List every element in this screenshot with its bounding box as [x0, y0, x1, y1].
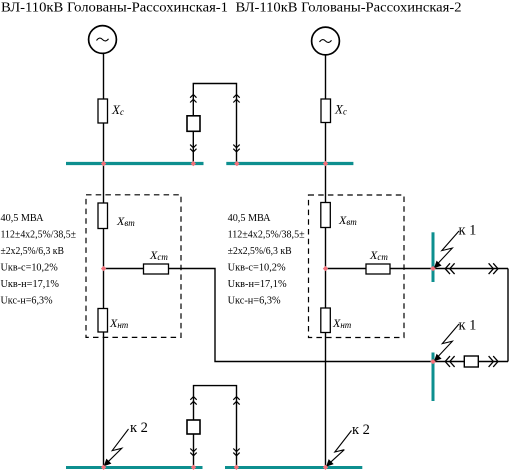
svg-text:Xc: Xc	[111, 102, 124, 117]
node: T2 LV feeder on bottom bus 2	[323, 465, 328, 470]
withdrawable contact arrows down, tie left (top)	[190, 145, 196, 152]
svg-text:к 2: к 2	[352, 422, 370, 438]
winding reactance Xvt (T1 HV)	[98, 203, 108, 229]
fault arrow K2 right	[326, 431, 352, 467]
node: tie left leg on bottom bus 1	[191, 465, 196, 470]
node: 35kV bus stub upper junction	[430, 266, 435, 271]
winding reactance Xst (T2 MV)	[366, 264, 390, 274]
busbar LV section 1 (bottom)	[66, 466, 203, 469]
svg-text:Uкв-н=17,1%: Uкв-н=17,1%	[1, 279, 60, 290]
svg-text:Uкв-с=10,2%: Uкв-с=10,2%	[1, 262, 59, 273]
reactor Xc2	[321, 99, 331, 123]
bus-tie jumper (bottom)	[194, 386, 237, 466]
svg-text:±2х2,5%/6,3 кВ: ±2х2,5%/6,3 кВ	[1, 246, 65, 257]
generator G1 (system source line 1)	[89, 26, 117, 54]
breaker box, bus-tie left (top)	[187, 116, 200, 132]
plug contacts << on upper line	[445, 263, 454, 274]
svg-text:ВЛ-110кВ Голованы-Рассохинская: ВЛ-110кВ Голованы-Рассохинская-2	[236, 1, 462, 16]
busbar LV section 2 (bottom)	[225, 466, 362, 469]
T2 nameplate text block	[228, 213, 305, 306]
svg-text:к 2: к 2	[130, 420, 148, 436]
node: G2 feeder on 110kV bus 2	[323, 161, 328, 166]
wire Xc1 to busbar A1	[103, 123, 105, 165]
winding reactance Xst (T1 MV)	[144, 264, 169, 274]
svg-text:к 1: к 1	[459, 223, 477, 239]
node: tie right leg on 110kV bus 2	[234, 161, 239, 166]
breaker box, bus-tie left (bottom)	[187, 420, 200, 434]
svg-text:Xст: Xст	[369, 248, 388, 262]
generator G2 (system source line 2)	[312, 27, 340, 55]
wire node to Xst, T1	[104, 268, 144, 270]
wire Xst T2 to upper 35kV bus K1	[390, 268, 508, 270]
svg-text:112±4х2,5%/38,5±: 112±4х2,5%/38,5±	[1, 230, 77, 241]
svg-text:Uкв-с=10,2%: Uкв-с=10,2%	[228, 262, 287, 273]
wire G2 to Xc2	[325, 55, 327, 99]
svg-text:Xст: Xст	[149, 248, 168, 262]
transformer T2 dashed boundary	[309, 195, 405, 338]
plug contacts >> on lower line	[489, 356, 498, 367]
fault arrow K1 lower	[434, 324, 459, 361]
35kV bus stub lower (fault K1)	[432, 353, 435, 402]
reactor Xc1	[98, 99, 108, 123]
winding reactance Xnt (T2 LV)	[321, 308, 331, 333]
T1 nameplate text block	[1, 213, 77, 306]
svg-text:Uкс-н=6,3%: Uкс-н=6,3%	[1, 295, 54, 306]
withdrawable contact arrows up, tie right (top)	[233, 95, 239, 103]
wire Xnt T2 to bottom busbar	[325, 333, 327, 467]
node: T1 LV feeder on bottom bus 1	[101, 465, 106, 470]
right sectional link vertical wire	[507, 269, 509, 362]
node: tie right leg on bottom bus 2	[234, 465, 239, 470]
wire node to Xst, T2	[326, 268, 367, 270]
wire Xnt T1 to bottom busbar	[103, 332, 105, 466]
plug contacts >> on upper line	[489, 263, 498, 274]
sectional reactor box on lower link	[464, 356, 478, 367]
withdrawable contact arrows down, tie right (top)	[233, 145, 239, 152]
svg-text:Xвт: Xвт	[338, 213, 357, 227]
node: T1 star point	[101, 266, 106, 271]
transformer T1 dashed boundary	[86, 195, 181, 338]
wire busbar A1 into T1	[103, 165, 105, 203]
svg-text:±2х2,5%/6,3 кВ: ±2х2,5%/6,3 кВ	[228, 246, 292, 257]
plug contacts << on lower line	[445, 356, 454, 367]
busbar 110kV section 1	[66, 162, 204, 165]
wire Xst T1 to lower 35kV bus K1'	[169, 269, 434, 362]
svg-text:Xнт: Xнт	[332, 316, 352, 330]
svg-text:Uкс-н=6,3%: Uкс-н=6,3%	[228, 295, 282, 306]
svg-text:к 1: к 1	[459, 318, 477, 334]
fault arrow K1 upper	[434, 231, 459, 268]
wire Xc2 to busbar A2	[325, 123, 327, 166]
winding reactance Xvt (T2 HV)	[321, 203, 331, 228]
svg-text:40,5 МВА: 40,5 МВА	[228, 213, 272, 224]
wire busbar A2 into T2	[325, 165, 327, 203]
busbar 110kV section 2	[226, 162, 353, 165]
svg-text:40,5 МВА: 40,5 МВА	[1, 213, 45, 224]
svg-text:ВЛ-110кВ Голованы-Рассохинская: ВЛ-110кВ Голованы-Рассохинская-1	[1, 1, 228, 16]
wire G1 to Xc1	[103, 54, 105, 100]
svg-text:Xвт: Xвт	[116, 214, 135, 228]
wire Xvt to node, T1	[103, 229, 105, 309]
withdrawable contact arrows up, tie right (bottom)	[233, 397, 239, 405]
withdrawable contact arrows down, tie left (bottom)	[190, 449, 196, 456]
withdrawable contact arrows up, tie left (bottom)	[190, 397, 196, 405]
node: T2 star point	[323, 266, 328, 271]
fault arrow K2 left	[104, 429, 129, 466]
svg-text:Uкв-н=17,1%: Uкв-н=17,1%	[228, 279, 288, 290]
wire Xvt to node, T2	[325, 228, 327, 309]
35kV bus stub upper (fault K1)	[432, 232, 435, 282]
node: G1 feeder on 110kV bus 1	[101, 161, 106, 166]
lower link wire from bus to corner	[433, 361, 508, 363]
withdrawable contact arrows up, tie left (top)	[190, 95, 196, 103]
svg-text:Xнт: Xнт	[109, 316, 129, 330]
node: 35kV bus stub lower junction	[430, 359, 435, 364]
svg-text:112±4х2,5%/38,5±: 112±4х2,5%/38,5±	[228, 230, 305, 241]
withdrawable contact arrows down, tie right (bottom)	[233, 449, 239, 456]
winding reactance Xnt (T1 LV)	[98, 309, 108, 333]
node: tie left leg on 110kV bus 1	[191, 161, 196, 166]
bus-tie jumper (top)	[193, 84, 236, 163]
svg-text:Xc: Xc	[334, 102, 347, 117]
